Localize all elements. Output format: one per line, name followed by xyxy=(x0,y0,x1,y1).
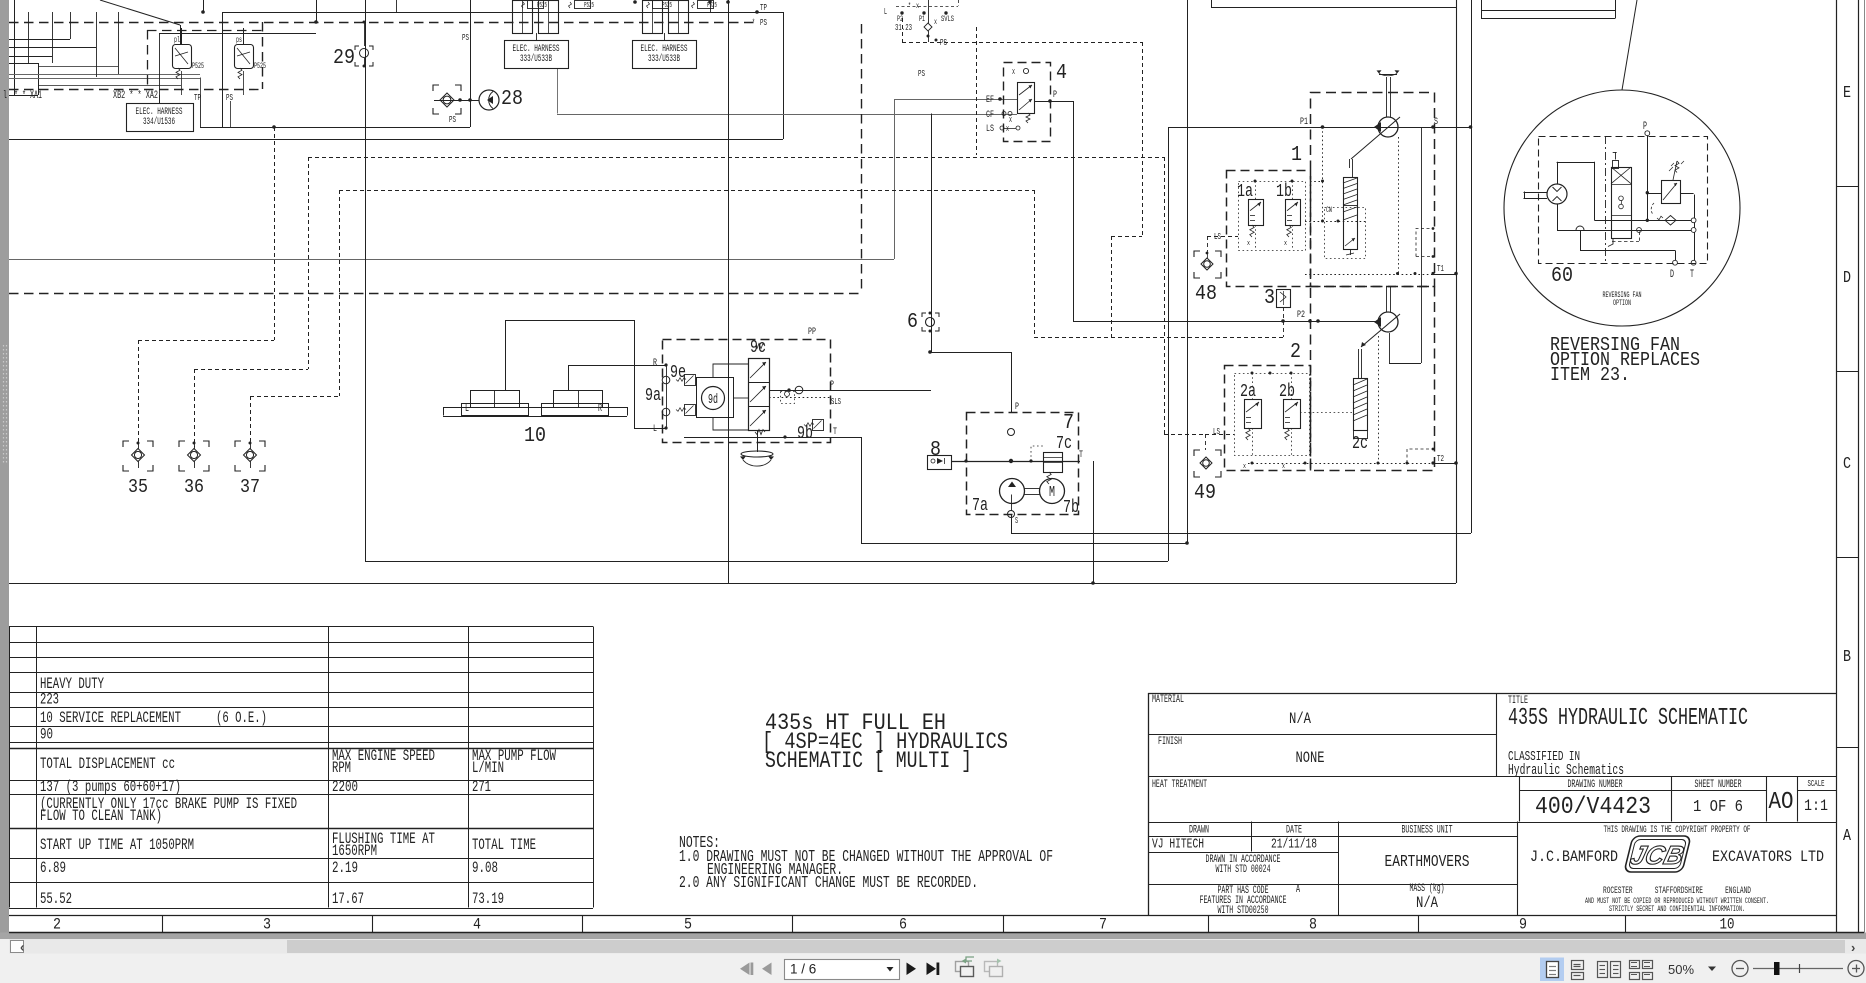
svg-text:T: T xyxy=(833,426,837,438)
svg-text:137 (3 pumps 60+60+17): 137 (3 pumps 60+60+17) xyxy=(40,778,181,796)
svg-text:P: P xyxy=(1053,89,1057,101)
svg-text:21/11/18: 21/11/18 xyxy=(1271,837,1317,853)
svg-text:9a: 9a xyxy=(645,386,661,406)
svg-text:9d: 9d xyxy=(708,392,718,408)
svg-text:D: D xyxy=(1843,268,1851,287)
svg-text:A: A xyxy=(1296,882,1300,896)
svg-text:PS: PS xyxy=(918,68,925,79)
svg-text:P525: P525 xyxy=(254,62,266,71)
svg-text:R: R xyxy=(598,403,602,415)
svg-text:PS: PS xyxy=(940,37,947,48)
svg-text:HEAT TREATMENT: HEAT TREATMENT xyxy=(1152,779,1207,791)
svg-text:FINISH: FINISH xyxy=(1158,736,1182,748)
svg-text:l: l xyxy=(3,90,7,102)
svg-text:DRAWN: DRAWN xyxy=(1189,825,1209,837)
svg-text:1650RPM: 1650RPM xyxy=(332,842,377,860)
svg-text:R: R xyxy=(653,357,657,369)
svg-text:48: 48 xyxy=(1195,282,1217,306)
svg-text:435S HYDRAULIC SCHEMATIC: 435S HYDRAULIC SCHEMATIC xyxy=(1508,705,1748,732)
svg-text:B: B xyxy=(1843,647,1851,666)
svg-text:T: T xyxy=(1079,449,1083,461)
svg-text:PS: PS xyxy=(760,17,767,28)
svg-text:2200: 2200 xyxy=(332,778,358,796)
svg-text:S: S xyxy=(1434,116,1438,128)
svg-text:3: 3 xyxy=(263,916,271,934)
svg-text:7a: 7a xyxy=(972,496,988,516)
svg-text:7c: 7c xyxy=(1056,434,1072,454)
svg-text:7: 7 xyxy=(1063,411,1074,435)
svg-text:pl: pl xyxy=(174,35,180,45)
svg-text:M: M xyxy=(1049,484,1055,501)
svg-text:*: * xyxy=(908,2,911,11)
svg-text:DATE: DATE xyxy=(1286,825,1302,837)
svg-text:TOTAL DISPLACEMENT cc: TOTAL DISPLACEMENT cc xyxy=(40,755,175,773)
svg-text:PS: PS xyxy=(462,32,469,43)
svg-text:50%: 50% xyxy=(1668,962,1694,977)
svg-text:9e: 9e xyxy=(670,363,686,383)
svg-text:D: D xyxy=(1670,269,1674,281)
svg-text:ITEM 23.: ITEM 23. xyxy=(1550,364,1630,386)
svg-text:37: 37 xyxy=(240,476,260,498)
svg-text:STRICTLY SECRET AND CONFIDENTI: STRICTLY SECRET AND CONFIDENTIAL INFORMA… xyxy=(1609,905,1745,914)
svg-text:OPTION: OPTION xyxy=(1613,299,1631,308)
svg-text:x: x xyxy=(934,17,937,27)
svg-text:2.19: 2.19 xyxy=(332,859,358,877)
svg-text:NONE: NONE xyxy=(1296,749,1325,767)
svg-text:L: L xyxy=(653,423,657,435)
svg-text:P525: P525 xyxy=(662,2,672,10)
svg-text:BUSINESS UNIT: BUSINESS UNIT xyxy=(1402,825,1453,837)
svg-text:T: T xyxy=(1690,269,1694,281)
svg-text:PS: PS xyxy=(226,92,233,103)
svg-text:JCB: JCB xyxy=(1628,840,1687,870)
svg-text:LS: LS xyxy=(1213,426,1220,437)
svg-text:271: 271 xyxy=(472,778,491,796)
svg-text:333/U533B: 333/U533B xyxy=(648,53,680,64)
svg-text:EARTHMOVERS: EARTHMOVERS xyxy=(1385,852,1470,871)
svg-text:49: 49 xyxy=(1194,481,1216,505)
svg-text:PS: PS xyxy=(449,114,456,125)
svg-text:J.C.BAMFORD: J.C.BAMFORD xyxy=(1530,848,1618,866)
svg-text:10: 10 xyxy=(1720,916,1735,934)
svg-text:RPM: RPM xyxy=(332,759,351,777)
svg-text:N/A: N/A xyxy=(1416,894,1438,912)
svg-text:2: 2 xyxy=(53,916,61,934)
svg-text:START UP TIME AT 1050PRM: START UP TIME AT 1050PRM xyxy=(40,836,194,854)
svg-text:EXCAVATORS LTD: EXCAVATORS LTD xyxy=(1712,848,1824,866)
svg-text:x: x xyxy=(1012,66,1015,77)
svg-text:36: 36 xyxy=(184,476,204,498)
svg-text:4: 4 xyxy=(1056,61,1067,85)
svg-text:TOTAL TIME: TOTAL TIME xyxy=(472,836,536,854)
svg-text:8: 8 xyxy=(930,438,941,462)
svg-text:9b: 9b xyxy=(797,424,813,444)
svg-text:35: 35 xyxy=(128,476,148,498)
svg-text:1: 1 xyxy=(1291,143,1302,167)
svg-text:P525: P525 xyxy=(584,2,594,10)
svg-text:* * XA1: * * XA1 xyxy=(14,90,42,102)
svg-text:CW: CW xyxy=(1326,205,1332,215)
svg-text:7b: 7b xyxy=(1063,498,1079,518)
svg-text:EF: EF xyxy=(986,94,994,106)
svg-text:7: 7 xyxy=(1099,916,1107,934)
svg-text:x: x xyxy=(1247,240,1250,248)
svg-text:TP: TP xyxy=(760,2,767,13)
svg-text:DRAWING NUMBER: DRAWING NUMBER xyxy=(1568,779,1623,791)
svg-text:400/V4423: 400/V4423 xyxy=(1535,794,1651,821)
svg-text:x: x xyxy=(1284,240,1287,248)
svg-text:333/U533B: 333/U533B xyxy=(520,53,552,64)
svg-text:9: 9 xyxy=(1519,916,1527,934)
svg-text:P2: P2 xyxy=(1297,309,1305,321)
svg-text:AO: AO xyxy=(1769,789,1794,816)
svg-text:MATERIAL: MATERIAL xyxy=(1152,694,1184,706)
svg-text:Hydraulic Schematics: Hydraulic Schematics xyxy=(1508,763,1624,779)
svg-text:SCHEMATIC [ MULTI ]: SCHEMATIC [ MULTI ] xyxy=(765,748,972,774)
svg-text:2c: 2c xyxy=(1352,434,1368,454)
svg-text:55.52: 55.52 xyxy=(40,890,72,908)
svg-text:17.67: 17.67 xyxy=(332,890,364,908)
svg-text:XB2 * * XA2: XB2 * * XA2 xyxy=(113,90,158,102)
svg-text:x: x xyxy=(1243,463,1246,471)
svg-text:29: 29 xyxy=(333,46,355,70)
svg-text:3: 3 xyxy=(1264,286,1275,310)
svg-text:SHEET NUMBER: SHEET NUMBER xyxy=(1695,779,1742,791)
svg-text:E: E xyxy=(1843,83,1851,102)
svg-text:SCALE: SCALE xyxy=(1808,778,1825,789)
svg-text:SVLS: SVLS xyxy=(941,14,954,24)
svg-text:T2: T2 xyxy=(1437,453,1444,464)
svg-text:LS: LS xyxy=(986,123,994,135)
svg-text:223: 223 xyxy=(40,691,59,709)
svg-text:ps: ps xyxy=(236,35,242,45)
svg-text:6: 6 xyxy=(907,310,918,334)
svg-text:2.0 ANY SIGNIFICANT CHANGE MUS: 2.0 ANY SIGNIFICANT CHANGE MUST BE RECOR… xyxy=(679,873,978,892)
svg-text:28: 28 xyxy=(501,87,523,111)
svg-text:ROCESTER STAFFORDSHIRE: ROCESTER STAFFORDSHIRE ENGLAND xyxy=(1603,886,1751,897)
svg-text:P1: P1 xyxy=(1300,116,1308,128)
svg-text:*: * xyxy=(752,17,755,28)
svg-text:10: 10 xyxy=(524,424,546,448)
svg-text:1 / 6: 1 / 6 xyxy=(790,962,816,977)
svg-text:N/A: N/A xyxy=(1289,710,1311,728)
svg-text:S: S xyxy=(1015,515,1018,526)
svg-text:CF: CF xyxy=(986,109,994,121)
svg-text:T1: T1 xyxy=(1437,263,1444,274)
svg-text:VJ HITECH: VJ HITECH xyxy=(1152,837,1204,853)
svg-text:9c: 9c xyxy=(750,338,766,358)
svg-text:WITH STD00250: WITH STD00250 xyxy=(1218,905,1269,917)
svg-text:(6 O.E.): (6 O.E.) xyxy=(216,709,267,727)
svg-text:PP: PP xyxy=(808,326,816,338)
svg-text:1:1: 1:1 xyxy=(1804,797,1828,815)
svg-text:P2: P2 xyxy=(897,14,903,24)
svg-text:WITH STD 00024: WITH STD 00024 xyxy=(1216,864,1271,876)
svg-text:A: A xyxy=(1843,826,1851,845)
svg-text:P1: P1 xyxy=(919,14,925,24)
svg-text:THIS DRAWING IS THE COPYRIGHT: THIS DRAWING IS THE COPYRIGHT PROPERTY O… xyxy=(1604,824,1751,835)
svg-text:›: › xyxy=(1851,940,1855,955)
svg-text:P525: P525 xyxy=(537,2,547,10)
svg-text:90: 90 xyxy=(40,726,53,744)
svg-text:SLS: SLS xyxy=(831,396,841,407)
svg-text:FLOW TO CLEAN TANK): FLOW TO CLEAN TANK) xyxy=(40,807,162,825)
svg-text:P525: P525 xyxy=(707,2,717,10)
svg-text:C: C xyxy=(1843,454,1851,473)
svg-text:L: L xyxy=(465,403,469,415)
svg-text:73.19: 73.19 xyxy=(472,890,504,908)
svg-text:60: 60 xyxy=(1551,264,1573,288)
svg-text:9.08: 9.08 xyxy=(472,859,498,877)
svg-text:x: x xyxy=(916,2,919,11)
svg-text:P: P xyxy=(830,379,834,391)
svg-text:4: 4 xyxy=(473,916,481,934)
svg-text:6.89: 6.89 xyxy=(40,859,66,877)
svg-text:1 OF 6: 1 OF 6 xyxy=(1693,797,1743,816)
svg-text:P: P xyxy=(1015,401,1019,413)
svg-text:2: 2 xyxy=(1290,340,1301,364)
svg-text:10 SERVICE REPLACEMENT: 10 SERVICE REPLACEMENT xyxy=(40,709,181,727)
svg-text:L: L xyxy=(884,6,887,17)
svg-text:x: x xyxy=(1282,463,1285,471)
svg-text:5: 5 xyxy=(684,916,692,934)
svg-text:8: 8 xyxy=(1309,916,1317,934)
svg-text:‹: ‹ xyxy=(20,940,24,955)
svg-text:L/MIN: L/MIN xyxy=(472,759,504,777)
svg-text:334/U1536: 334/U1536 xyxy=(143,116,175,127)
svg-text:P525: P525 xyxy=(192,62,204,71)
svg-text:6: 6 xyxy=(899,916,907,934)
